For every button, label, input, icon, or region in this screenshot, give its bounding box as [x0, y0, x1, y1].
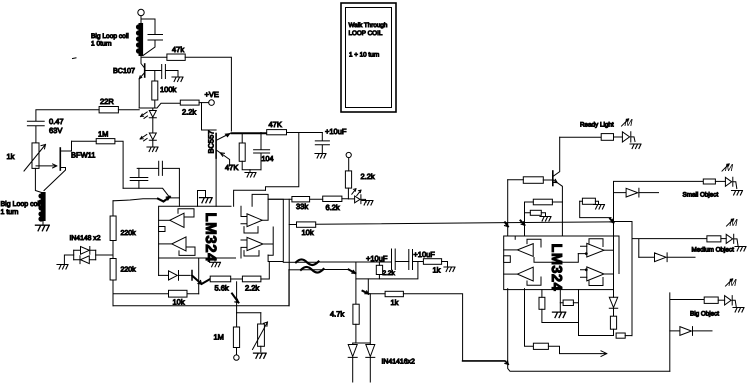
Q3 collector with arrow	[217, 134, 230, 140]
svg-text:100k: 100k	[160, 85, 177, 94]
resistor small + ground	[530, 210, 541, 215]
svg-text:1 0turn: 1 0turn	[91, 41, 112, 48]
resistor 220k upper	[110, 216, 116, 241]
lower routing wire	[356, 262, 418, 279]
svg-text:0.47: 0.47	[49, 117, 64, 126]
resistor small horizontal	[616, 333, 625, 338]
rail below U2 mid	[579, 290, 613, 336]
cable wire upper with squiggle	[283, 261, 296, 263]
potentiometer bottom	[258, 324, 265, 346]
rail x289	[288, 199, 290, 305]
svg-text:BC107: BC107	[113, 66, 135, 75]
svg-text:6.2k: 6.2k	[326, 203, 340, 212]
ground 47K/104	[249, 170, 251, 172]
resistor 100k	[152, 81, 158, 100]
B2 feedback box	[527, 277, 541, 285]
resistor below U2 a	[539, 297, 545, 309]
B4 input stubs + feedback	[581, 270, 604, 286]
A4 feedback box	[244, 251, 259, 256]
ground pot	[254, 353, 267, 358]
Q2 gate arrow	[36, 164, 57, 168]
op-amp B3 (points right)	[587, 243, 604, 257]
svg-text:2.2k: 2.2k	[383, 270, 396, 277]
svg-text:1 turn: 1 turn	[1, 209, 19, 216]
junction down to 1M/pot	[236, 282, 238, 313]
B3 input stubs + feedback	[578, 239, 603, 254]
op-amp B2 (points left)	[517, 267, 533, 281]
svg-text:63V: 63V	[49, 126, 62, 135]
LED D5 arrows	[352, 189, 361, 196]
svg-text:Big Loop coil: Big Loop coil	[1, 200, 42, 208]
ground big object	[733, 308, 744, 313]
wire Q1 emitter down	[138, 79, 140, 108]
LED ready arrows	[622, 118, 634, 129]
resistor 1M vertical	[233, 327, 239, 348]
svg-text:47K: 47K	[269, 120, 282, 129]
svg-text:IN4148 x2: IN4148 x2	[70, 235, 101, 242]
B1 feedback box	[527, 239, 541, 247]
resistor top-left of U2	[523, 177, 543, 184]
diode small object	[614, 188, 659, 197]
wire pot bottom to loop coil	[35, 168, 41, 192]
svg-text:+10uF: +10uF	[413, 250, 435, 259]
U2 box outline	[504, 236, 614, 290]
resistor 2.2k (+VE feed)	[180, 100, 199, 105]
diode pair IN41416x2 tops	[353, 294, 371, 345]
ground +10uF top	[315, 154, 326, 159]
transistor Q3 BC557 bar	[215, 134, 217, 159]
resistor 10k mid	[297, 222, 316, 227]
ground LEDs	[147, 147, 158, 152]
op-amp A1 (points left)	[170, 213, 184, 227]
ground medium object	[735, 247, 746, 252]
junction arrow into U1	[158, 197, 170, 202]
thick node wire	[231, 132, 266, 134]
wire 2.2k to +VE	[199, 102, 209, 104]
transistor Q1 emitter	[139, 73, 145, 79]
U1 pin tab	[159, 227, 165, 232]
LED D1	[149, 111, 156, 118]
A1 feedback box	[178, 209, 194, 217]
cable wire lower with squiggle	[289, 269, 301, 271]
ground above U1	[200, 198, 213, 203]
Q4 emitter	[554, 180, 563, 236]
ground 1k	[444, 267, 455, 272]
arrow join 1k row	[363, 291, 369, 294]
svg-text:Ready Light: Ready Light	[580, 122, 614, 129]
diode D18 down	[609, 297, 617, 316]
U2 pin tab	[504, 256, 511, 263]
ground stub below U1	[214, 258, 216, 261]
coupling caps C4 C5	[137, 161, 179, 198]
arrow join bottom rail	[463, 361, 509, 364]
wire coil bottom to Q1 collector	[141, 56, 145, 68]
Q2 source	[44, 168, 66, 191]
terminal bottom	[234, 355, 239, 360]
LED D5	[348, 195, 366, 204]
LED D2	[149, 133, 156, 140]
svg-text:1k: 1k	[391, 298, 399, 307]
resistor 1M top	[96, 139, 115, 144]
wire terminal to cap C1	[141, 19, 155, 34]
LED ready	[622, 132, 635, 142]
long rail y306	[113, 270, 289, 306]
U2 internal mid wire	[534, 254, 578, 263]
inductor L1 Big Loop coil 10 turn	[136, 23, 143, 56]
resistor 2.2k small vertical	[376, 265, 382, 274]
svg-text:220k: 220k	[121, 229, 137, 237]
resistor 5.6k	[210, 276, 231, 282]
svg-text:1 + 10 turn: 1 + 10 turn	[349, 52, 380, 59]
JFET Q2 BFW11 bar	[59, 148, 61, 170]
svg-text:47k: 47k	[172, 45, 184, 54]
wire into U1 top	[170, 198, 180, 206]
svg-text:104: 104	[262, 154, 274, 163]
svg-text:IN41416x2: IN41416x2	[382, 359, 415, 366]
ground pin below U2	[559, 290, 561, 312]
potentiometer 1k	[32, 143, 39, 169]
ground ready	[630, 144, 641, 149]
resistor below U2 b (horizontal)	[563, 300, 573, 306]
svg-text:5.6k: 5.6k	[215, 284, 229, 293]
LED big arrows	[726, 278, 738, 289]
svg-text:LM324: LM324	[548, 244, 564, 292]
U2 pin stub into B1 fb	[514, 236, 516, 239]
resistor 47K vertical	[239, 143, 245, 161]
capacitor C1 (loop tuning)	[143, 35, 163, 56]
resistor 6.2k	[323, 196, 342, 201]
LED big object	[725, 296, 737, 307]
diode big object	[670, 327, 712, 336]
resistor 4.7k vertical	[353, 304, 359, 324]
terminal +VE	[209, 100, 215, 106]
resistor 2.2k bottom	[242, 276, 261, 282]
svg-text:+VE: +VE	[205, 90, 219, 99]
svg-text:10k: 10k	[302, 228, 314, 237]
node wire y188	[123, 188, 169, 197]
capacitor 104	[254, 133, 270, 170]
wire L2 bottom to ground	[42, 221, 44, 224]
rail x619	[614, 236, 620, 274]
op-amp A3 (points right)	[247, 214, 262, 227]
resistor bottom-left of U2 + arrowed wire	[525, 289, 534, 347]
svg-text:Walk Through: Walk Through	[349, 22, 388, 29]
LED medium arrows	[727, 218, 739, 229]
svg-text:1k: 1k	[7, 152, 15, 161]
resistor 33k	[292, 197, 310, 202]
resistor right + ground	[582, 198, 595, 204]
rail x507.7	[507, 180, 509, 236]
vertical to 4.7k	[355, 262, 357, 304]
svg-text:BFW11: BFW11	[71, 151, 95, 160]
U1 top pin wires	[198, 191, 206, 207]
arrow join right rail	[610, 219, 614, 223]
ground diodes	[57, 265, 68, 270]
resistor below D18	[610, 316, 616, 329]
op-amp A2 (points left)	[172, 237, 186, 251]
svg-text:22R: 22R	[100, 97, 114, 106]
wire U1 left edge down	[158, 258, 160, 275]
svg-text:LOOP COIL: LOOP COIL	[349, 30, 383, 37]
op-amp B1 (points left)	[517, 244, 533, 257]
ground L2	[36, 225, 50, 231]
svg-text:+10uF: +10uF	[325, 127, 347, 136]
ground small object	[732, 191, 743, 196]
LED small object	[725, 177, 736, 188]
svg-text:Big Loop coil: Big Loop coil	[91, 33, 129, 40]
pin wire below U1 to 10k2	[198, 258, 200, 294]
inductor L2 Big Loop coil 1 turn	[38, 192, 45, 222]
rail x632	[614, 222, 633, 336]
arrow join mid rail	[521, 221, 525, 226]
svg-text:Medium Object: Medium Object	[692, 247, 735, 254]
op-amp A4 (points right)	[247, 237, 263, 250]
svg-text:LM324: LM324	[202, 213, 219, 263]
Q3 emitter	[217, 151, 230, 167]
Q2 drain	[60, 141, 71, 151]
resistor ready	[601, 134, 613, 141]
diode medium object	[639, 253, 695, 262]
bottom rail from U2	[508, 289, 670, 372]
svg-text:10k: 10k	[173, 298, 185, 307]
resistor 220k lower	[110, 259, 116, 281]
svg-text:Small Object: Small Object	[683, 192, 719, 199]
wire Q1 base right	[145, 70, 162, 72]
A4 input stubs	[241, 240, 247, 258]
svg-text:2.2k: 2.2k	[182, 108, 196, 117]
A3 input stubs	[241, 206, 247, 224]
walk-through loop coil box outer	[341, 3, 396, 112]
Q4 collector	[554, 137, 560, 176]
walk-through loop coil box inner	[346, 8, 392, 108]
svg-text:4.7k: 4.7k	[330, 310, 344, 319]
resistor medium object	[707, 236, 721, 242]
svg-text:1M: 1M	[98, 130, 108, 139]
svg-text:2.2k: 2.2k	[245, 284, 259, 293]
diode chain below U2 right	[613, 289, 615, 298]
svg-text:47K: 47K	[225, 163, 238, 172]
resistor mid-left of U2	[533, 199, 552, 205]
svg-text:220k: 220k	[121, 266, 137, 274]
resistor 10k bottom	[169, 290, 188, 297]
wire coil top to terminal	[140, 16, 142, 23]
svg-text:Big Object: Big Object	[690, 311, 719, 318]
capacitor 0.47 63V	[27, 121, 44, 143]
svg-text:1M: 1M	[214, 333, 224, 342]
U1 outline top/left/bottom	[159, 206, 236, 258]
resistor big object	[704, 297, 718, 303]
resistor 22R	[99, 107, 118, 113]
wire 10k row	[289, 222, 610, 225]
arrow join long wire into rail	[505, 222, 508, 226]
tiny stray dash	[73, 57, 77, 60]
resistor 47k top	[167, 54, 185, 60]
resistor 1k right of caps	[423, 259, 441, 265]
wire BC557 bar down into U1	[215, 158, 217, 206]
svg-text:33k: 33k	[296, 202, 308, 211]
wires 33k row	[268, 198, 348, 201]
ground D5	[362, 201, 373, 206]
LED D2 arrows	[140, 135, 147, 141]
wire 47K to staircase	[266, 133, 299, 191]
arrow join lower cable	[349, 270, 356, 274]
resistor 47K mid	[267, 130, 287, 135]
svg-text:1k: 1k	[433, 266, 441, 275]
terminal + resistor 2.2k vertical	[346, 152, 351, 157]
wire +VE node down to Q3 base	[202, 103, 217, 130]
staircase wires into U1 right col	[234, 190, 269, 206]
diode D9	[348, 345, 357, 383]
diode D10	[366, 345, 375, 383]
wobbly wire from 220k rail to U1	[113, 199, 158, 201]
svg-text:+10uF: +10uF	[366, 254, 388, 263]
op-amp B4 (points right)	[587, 267, 604, 281]
transistor Q1 BC107 base bar	[144, 64, 146, 77]
ground C2	[172, 77, 183, 82]
junction arrow Q-like	[191, 271, 193, 281]
resistor 1k lower	[385, 291, 403, 296]
LED D1 arrows	[141, 112, 148, 118]
diode D6	[159, 271, 190, 281]
resistor small object	[703, 179, 715, 184]
terminal top	[138, 9, 144, 15]
tall feedback rect right of U1	[268, 199, 283, 261]
A2 feedback box	[179, 247, 195, 255]
svg-text:2.2k: 2.2k	[361, 172, 375, 181]
transistor Q4 bar	[552, 171, 554, 186]
A3 feedback box	[244, 227, 258, 233]
node wire emitter/100k to 2.2k	[139, 103, 180, 108]
capacitor C2	[162, 65, 178, 79]
LED small arrows	[722, 163, 734, 174]
LED medium object	[726, 234, 738, 245]
svg-text:BC557: BC557	[207, 131, 216, 154]
